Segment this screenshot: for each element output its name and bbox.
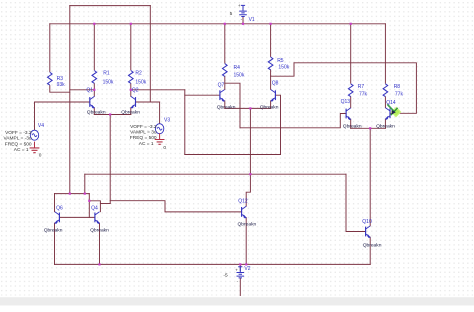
wire Q7 collector to drop xyxy=(225,83,240,128)
wire R5 bottom / Q8 collector lead xyxy=(270,70,272,89)
node tail crosses long net xyxy=(249,173,251,175)
svg-text:Qbreakn: Qbreakn xyxy=(363,242,382,248)
node rail-V1 xyxy=(242,23,244,25)
source V2 battery xyxy=(237,267,245,278)
wire Q4 emitter down xyxy=(99,223,101,264)
svg-text:Qbreakn: Qbreakn xyxy=(376,123,395,129)
wire Q2 base to V3 xyxy=(136,101,160,103)
svg-text:Q12: Q12 xyxy=(238,198,248,204)
wire diff pair emitter tie xyxy=(94,114,131,116)
wire Q6 emitter down xyxy=(54,223,56,264)
wire Q1 emitter lead xyxy=(93,108,95,115)
wire R1 top lead xyxy=(93,24,95,70)
svg-text:Q10: Q10 xyxy=(362,219,372,225)
wire staircase to tail xyxy=(100,203,110,205)
node Q4 emitter rail xyxy=(98,263,100,265)
wire R5 top lead xyxy=(270,24,272,57)
svg-text:Qbreakn: Qbreakn xyxy=(44,228,63,234)
svg-text:Q13: Q13 xyxy=(341,99,351,105)
node V2 rail xyxy=(239,263,241,265)
wire V4 to Q1 base xyxy=(35,101,90,103)
wire R3 bottom jog xyxy=(50,86,70,93)
svg-text:VAMPL = -3u: VAMPL = -3u xyxy=(3,136,31,142)
probe marker at Q14 base (green) xyxy=(387,104,400,116)
svg-text:R2: R2 xyxy=(135,71,142,77)
node rail-R1 xyxy=(93,23,95,25)
wire node A to Q1 collector xyxy=(70,89,95,91)
transistor Q6 (mirrored) xyxy=(55,212,60,224)
svg-text:R5: R5 xyxy=(277,58,284,64)
resistor R2 xyxy=(129,71,134,84)
svg-text:VAMPL = 3u: VAMPL = 3u xyxy=(130,130,157,136)
wire R1 bottom to Q1 collector xyxy=(93,84,95,97)
svg-text:5: 5 xyxy=(230,11,233,17)
svg-text:V4: V4 xyxy=(38,123,44,129)
resistor R5 xyxy=(268,57,273,70)
node rail-R5 xyxy=(270,23,272,25)
wire R2 bottom to Q2 collector xyxy=(130,84,132,97)
svg-text:FREQ = 500: FREQ = 500 xyxy=(5,141,32,147)
wire R7 top lead xyxy=(350,24,352,83)
wire loop left vertical (node A: R3/Q1 collector/Q6 collector) xyxy=(69,6,71,194)
svg-text:Q7: Q7 xyxy=(218,82,225,88)
svg-text:Qbreakn: Qbreakn xyxy=(121,110,140,116)
transistor Q7 xyxy=(220,90,225,102)
wire riser x=184.8 down to U-bottom xyxy=(184,90,186,155)
wire Q10 base feed xyxy=(346,174,366,231)
wire long mid horizontal net xyxy=(85,173,346,175)
node pair2 tail xyxy=(249,107,251,109)
source V4 sine xyxy=(30,130,38,140)
svg-text:Qbreakn: Qbreakn xyxy=(90,228,109,234)
wire Q7 base feed xyxy=(185,94,220,96)
svg-text:AC = 1: AC = 1 xyxy=(14,147,29,153)
wire tail of first pair xyxy=(109,115,111,204)
svg-text:R4: R4 xyxy=(234,65,241,71)
wire U-bottom run xyxy=(185,154,281,156)
node box-left junction xyxy=(69,193,71,195)
status bar xyxy=(0,297,474,305)
wire tail to Q10 collector xyxy=(369,128,371,226)
svg-text:150k: 150k xyxy=(103,79,114,85)
wire V2 top stub xyxy=(239,264,241,270)
svg-text:V2: V2 xyxy=(244,266,250,272)
node rail-R4 xyxy=(224,23,226,25)
wire Q12 base feed xyxy=(110,201,241,212)
transistor Q8 (mirrored) xyxy=(271,90,276,102)
wire Q14 emitter lead xyxy=(384,119,386,128)
wire Q12 emitter down xyxy=(245,218,247,265)
wire long net drop into box xyxy=(84,174,86,193)
wire VEE bottom rail xyxy=(55,263,371,265)
svg-text:0: 0 xyxy=(163,145,166,151)
svg-text:V3: V3 xyxy=(164,117,170,123)
wire R7 bottom to Q13 collector xyxy=(350,97,352,108)
svg-text:150k: 150k xyxy=(135,79,146,85)
svg-text:R8: R8 xyxy=(394,84,401,90)
svg-text:V1: V1 xyxy=(249,17,255,23)
wire long top run to Q14 base loop xyxy=(294,63,416,114)
svg-text:Q6: Q6 xyxy=(56,205,63,211)
wire loop right vertical to Q2 base node xyxy=(149,6,151,102)
wire R2 top lead xyxy=(130,24,132,70)
transistor Q1 xyxy=(90,96,95,108)
node output pair tail xyxy=(369,127,371,129)
svg-text:-5: -5 xyxy=(223,273,228,279)
svg-text:Q14: Q14 xyxy=(386,100,396,106)
svg-text:VOFF = -3.2: VOFF = -3.2 xyxy=(5,130,32,136)
wire box top xyxy=(55,193,90,195)
transistor Q14 (mirrored) xyxy=(385,108,390,120)
node pair1 tail xyxy=(109,113,111,115)
svg-text:Q8: Q8 xyxy=(272,80,279,86)
node Q2 collector xyxy=(130,89,132,91)
wire R5 node right jog up xyxy=(271,63,294,76)
svg-text:R7: R7 xyxy=(358,84,365,90)
resistor R4 xyxy=(223,64,228,77)
wire Q8 base jog down xyxy=(275,95,280,154)
svg-text:+: + xyxy=(238,3,241,8)
wire output pair emitter tie xyxy=(351,127,386,129)
svg-text:Qbreakn: Qbreakn xyxy=(87,110,106,116)
svg-text:+: + xyxy=(235,268,238,273)
node box-right junction xyxy=(84,193,86,195)
node Q1 collector xyxy=(93,89,95,91)
svg-text:Q1: Q1 xyxy=(86,88,93,94)
svg-text:AC = 1: AC = 1 xyxy=(139,141,154,147)
svg-text:Qbreakn: Qbreakn xyxy=(238,221,257,227)
wire Q2 emitter lead xyxy=(130,108,132,115)
transistor Q13 xyxy=(346,108,351,120)
svg-text:Q2: Q2 xyxy=(132,87,139,93)
ground for V4 xyxy=(30,142,40,153)
wire VCC top rail xyxy=(50,23,386,25)
source V1 battery xyxy=(239,5,247,16)
wire tail of second pair down to Q12 xyxy=(246,108,250,206)
svg-text:VOFF = -3.2: VOFF = -3.2 xyxy=(130,124,157,130)
wire Q10 emitter riser xyxy=(369,237,371,264)
wire Q6-Q4 base tie xyxy=(59,216,95,218)
wire R3 top lead xyxy=(49,24,51,72)
svg-text:93k: 93k xyxy=(57,82,66,88)
wire second pair emitter tie xyxy=(225,107,271,109)
ground for V3 xyxy=(155,133,165,144)
svg-text:R1: R1 xyxy=(103,71,110,77)
wire Q7 collector net to Q13 base xyxy=(240,114,346,128)
wire box right vertical xyxy=(88,194,90,218)
svg-text:Q4: Q4 xyxy=(91,205,98,211)
transistor Q4 xyxy=(95,212,100,224)
wire Q2 collector to riser xyxy=(131,89,185,91)
wire R8 bottom to Q14 collector xyxy=(384,97,386,108)
svg-text:150k: 150k xyxy=(278,65,289,71)
svg-text:Qbreakn: Qbreakn xyxy=(260,104,279,110)
wire box left to Q6 collector xyxy=(54,194,56,212)
svg-text:Qbreakn: Qbreakn xyxy=(217,104,236,110)
resistor R3 xyxy=(48,72,53,85)
wire R8 top lead xyxy=(384,24,386,83)
wire V2 bottom stub xyxy=(239,278,241,295)
resistor R1 xyxy=(92,71,97,84)
svg-text:77k: 77k xyxy=(395,92,404,98)
wire cross-couple loop top xyxy=(70,5,151,7)
source V3 sine xyxy=(155,124,163,134)
node rail-R7 xyxy=(350,23,352,25)
wire V3 riser xyxy=(159,102,161,124)
wire Q8 emitter lead xyxy=(270,101,272,109)
wire V1 stub to rail xyxy=(242,17,244,24)
transistor Q10 xyxy=(366,226,371,238)
svg-text:0: 0 xyxy=(39,153,42,159)
node rail-R2 xyxy=(130,23,132,25)
wire staircase to Q4 collector xyxy=(89,201,100,212)
wire V4 riser xyxy=(34,102,36,131)
transistor Q12 xyxy=(242,206,247,218)
node Q12 emitter rail xyxy=(245,263,247,265)
wire Q7 emitter lead xyxy=(224,101,226,109)
wire Q13 emitter lead xyxy=(350,119,352,128)
svg-text:77k: 77k xyxy=(359,92,368,98)
resistor R7 xyxy=(348,84,353,97)
node staircase junction xyxy=(88,200,90,202)
svg-text:FREQ = 500: FREQ = 500 xyxy=(130,135,157,141)
wire R4 top lead xyxy=(224,24,226,63)
svg-text:150k: 150k xyxy=(234,72,245,78)
transistor Q2 (mirrored) xyxy=(131,96,136,108)
resistor R8 xyxy=(383,84,388,97)
svg-text:Qbreakn: Qbreakn xyxy=(343,123,362,129)
wire R4 bottom / Q7 collector node xyxy=(224,77,226,90)
